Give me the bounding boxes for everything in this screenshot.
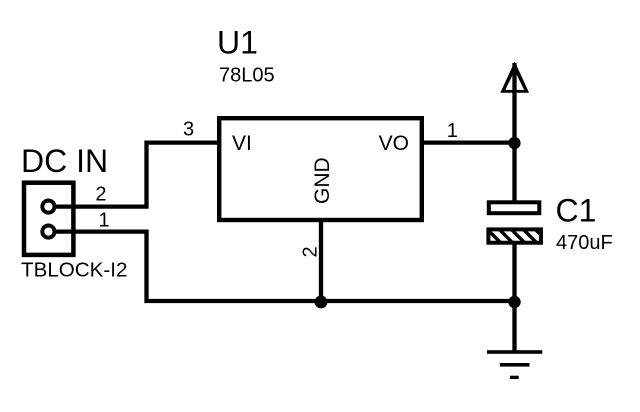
svg-text:470uF: 470uF <box>556 232 613 254</box>
terminal pin 2 circle <box>42 201 54 213</box>
wire: terminal pin 1 along bottom ground rail to C1 node <box>56 232 515 301</box>
svg-text:1: 1 <box>99 210 110 232</box>
svg-text:VO: VO <box>379 132 409 155</box>
svg-text:2: 2 <box>300 246 322 257</box>
svg-text:1: 1 <box>447 120 458 142</box>
svg-text:78L05: 78L05 <box>219 65 275 87</box>
svg-text:DC IN: DC IN <box>21 143 108 179</box>
svg-text:U1: U1 <box>217 25 258 61</box>
svg-text:GND: GND <box>311 157 334 204</box>
svg-text:VI: VI <box>232 132 252 155</box>
capacitor C1 top plate <box>489 202 540 213</box>
junction dot: GND pin on ground rail <box>315 296 328 309</box>
wire: power symbol down to C1 top plate <box>512 63 516 202</box>
wire: C1 bottom plate to ground symbol <box>512 243 516 352</box>
junction dot: C1 bottom node on ground rail <box>508 296 520 308</box>
junction dot: VO output node <box>508 137 520 149</box>
power symbol arrow <box>500 62 529 93</box>
svg-text:2: 2 <box>95 184 106 206</box>
svg-text:TBLOCK-I2: TBLOCK-I2 <box>21 259 127 282</box>
terminal pin 1 circle <box>42 226 54 238</box>
wire: U1 VO to output node <box>422 140 515 144</box>
wire: U1 GND pin to ground rail <box>319 220 323 301</box>
svg-text:3: 3 <box>183 119 194 141</box>
regulator U1 body <box>219 118 422 220</box>
ground symbol <box>487 350 542 379</box>
svg-text:C1: C1 <box>556 193 597 229</box>
capacitor C1 bottom plate (polarized, hatched) <box>462 226 549 246</box>
terminal block J1 TBLOCK-I2 body <box>24 183 73 255</box>
wire: terminal pin 2 up to U1 VI (pin 3) <box>56 143 219 207</box>
